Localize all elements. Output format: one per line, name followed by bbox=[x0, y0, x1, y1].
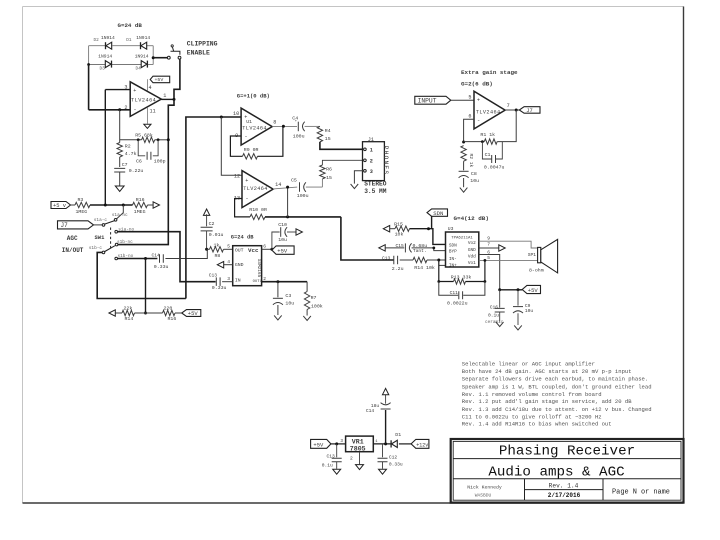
svg-text:Selectable linear or AGC input: Selectable linear or AGC input amplifier bbox=[462, 360, 595, 367]
svg-text:220: 220 bbox=[164, 306, 173, 312]
svg-text:+: + bbox=[245, 178, 248, 184]
capacitor C15 0.68u tantalum bypass bbox=[385, 247, 404, 249]
node IN- junction bbox=[437, 259, 440, 262]
svg-text:6: 6 bbox=[263, 244, 266, 250]
svg-text:CLIPPING: CLIPPING bbox=[187, 40, 218, 47]
svg-text:Extra gain stage: Extra gain stage bbox=[461, 69, 518, 76]
diode D1 (reverse protection) bbox=[390, 440, 392, 447]
svg-text:4: 4 bbox=[227, 259, 230, 265]
capacitor C3 10u bbox=[277, 282, 279, 298]
svg-text:Rev. 1.1 removed volume contro: Rev. 1.1 removed volume control from boa… bbox=[462, 391, 602, 398]
node bias resistors junction bbox=[144, 312, 147, 315]
svg-text:s1b-c: s1b-c bbox=[89, 246, 103, 251]
wire U1A output long vertical down to s1b-nc bbox=[118, 99, 174, 244]
power flag +5V at U2 bbox=[272, 246, 294, 254]
svg-text:Vcc: Vcc bbox=[248, 247, 259, 254]
regulator VR1 7805 body bbox=[346, 436, 374, 452]
ground below VR1 bbox=[356, 465, 364, 470]
svg-text:WA5BDU: WA5BDU bbox=[475, 493, 492, 499]
svg-text:D2: D2 bbox=[94, 38, 100, 43]
wire C7 to ground bbox=[119, 172, 121, 186]
svg-text:AGC: AGC bbox=[67, 235, 78, 242]
node C1 tap bbox=[481, 140, 484, 143]
svg-text:R16: R16 bbox=[168, 316, 177, 322]
switch contact s1a-no bbox=[115, 230, 118, 233]
diode D1 1N914 (top-right, pointing left) bbox=[140, 42, 142, 49]
svg-text:R3: R3 bbox=[78, 197, 84, 203]
svg-text:R1 1k: R1 1k bbox=[480, 132, 495, 138]
svg-text:C10: C10 bbox=[278, 222, 287, 228]
wire U3 Vdd down to +5V node bbox=[479, 255, 500, 290]
connector J1 phone jack body bbox=[363, 142, 385, 181]
svg-text:11: 11 bbox=[150, 108, 156, 114]
capacitor C1 0.0047u parallel bbox=[482, 142, 491, 159]
resistor R13 33k feedback bbox=[439, 260, 454, 282]
IC U3 TPA6211A1 speaker amp body bbox=[446, 232, 479, 267]
node Vo1 feedback tap bbox=[484, 259, 487, 262]
svg-text:5: 5 bbox=[227, 244, 230, 250]
svg-text:R9 0R: R9 0R bbox=[244, 147, 259, 153]
svg-text:IN+: IN+ bbox=[449, 263, 457, 268]
switch pole s1b bbox=[102, 251, 105, 254]
svg-text:+5V: +5V bbox=[188, 310, 199, 317]
capacitor C10 10u decoupling bbox=[272, 232, 280, 249]
resistor R9 0R feedback bbox=[243, 154, 258, 159]
svg-text:3: 3 bbox=[340, 439, 343, 444]
svg-text:-: - bbox=[477, 117, 480, 124]
svg-text:IN-: IN- bbox=[449, 257, 457, 262]
switch contact s1a-nc bbox=[114, 219, 117, 222]
wire SDN flag down to R15 node bbox=[431, 216, 433, 228]
svg-text:1N914: 1N914 bbox=[98, 54, 112, 60]
op-amp U1C TLV2464 (lower follower) bbox=[242, 171, 273, 208]
wire diode-network left leg bbox=[88, 46, 90, 65]
wire IN+ stub bbox=[439, 264, 446, 266]
svg-text:7: 7 bbox=[487, 242, 490, 248]
svg-text:6: 6 bbox=[487, 249, 490, 255]
node R13 left bbox=[437, 280, 440, 283]
node C12/C14 tap bbox=[384, 442, 387, 445]
resistor R15 10k bbox=[390, 228, 395, 230]
svg-text:D1: D1 bbox=[126, 38, 132, 43]
svg-text:C15: C15 bbox=[396, 243, 405, 249]
resistor R4 15 (upper earbud) bbox=[317, 126, 322, 141]
capacitor C8 10u bbox=[459, 170, 469, 172]
svg-text:100k: 100k bbox=[311, 303, 323, 309]
svg-text:+: + bbox=[133, 88, 136, 94]
svg-text:Both have 24 dB gain. AGC star: Both have 24 dB gain. AGC starts at 20 m… bbox=[462, 368, 632, 375]
op-amp U1D TLV2464 (extra gain) bbox=[474, 91, 505, 129]
capacitor C13b 2.2u input coupling bbox=[394, 256, 398, 264]
wire VR1 ground pin bbox=[359, 452, 361, 465]
svg-text:Vo2: Vo2 bbox=[468, 241, 476, 246]
capacitor C5 100u coupling bbox=[299, 182, 301, 192]
wire U1A pin11 ground stub bbox=[147, 108, 149, 124]
svg-text:3.5 MM: 3.5 MM bbox=[364, 188, 387, 195]
node SDN junction bbox=[427, 227, 430, 230]
wire U1D pin6 to feedback node bbox=[464, 119, 474, 142]
diode D4 1N914 (bottom-right, pointing right) bbox=[146, 61, 148, 68]
capacitor C6 100p parallel feedback bbox=[138, 140, 145, 156]
svg-text:1: 1 bbox=[370, 147, 373, 153]
svg-text:Separate followers drive each: Separate followers drive each earbud, to… bbox=[462, 376, 648, 383]
svg-text:1MEG: 1MEG bbox=[134, 209, 146, 215]
off-page arrow left of U2 GND bbox=[217, 262, 223, 268]
wire J7 to s1a pole bbox=[94, 224, 103, 226]
svg-text:10u: 10u bbox=[525, 308, 534, 314]
svg-text:Vdd: Vdd bbox=[468, 254, 476, 259]
wire s1a-no to U2 input coupling bbox=[118, 232, 216, 282]
svg-text:2.2u: 2.2u bbox=[392, 266, 404, 272]
svg-text:s1a-nc: s1a-nc bbox=[112, 213, 128, 218]
wire jack pin3 to ground bbox=[354, 171, 363, 184]
off-page arrow left of R15 bbox=[383, 226, 389, 232]
switch pole s1a bbox=[102, 224, 105, 227]
off-page arrow above C2 bbox=[203, 209, 209, 215]
svg-text:1: 1 bbox=[163, 93, 166, 99]
power flag +5V regulator output bbox=[311, 439, 331, 448]
ground below C16 bbox=[496, 322, 504, 327]
wire R16 to off-page arrow bbox=[148, 204, 153, 206]
off-page arrow left of C15 bbox=[379, 245, 385, 251]
svg-text:1N914: 1N914 bbox=[136, 35, 150, 41]
svg-text:TPA6211A1: TPA6211A1 bbox=[451, 237, 473, 241]
svg-text:14: 14 bbox=[275, 182, 281, 188]
svg-text:Rev. 1.3 add C14/18u due to at: Rev. 1.3 add C14/18u due to attent. on +… bbox=[462, 406, 652, 413]
svg-text:Speaker amp is 1 W, BTL couple: Speaker amp is 1 W, BTL coupled, don't g… bbox=[462, 383, 652, 390]
svg-text:+5V: +5V bbox=[313, 441, 324, 448]
svg-text:1N914: 1N914 bbox=[135, 54, 149, 60]
svg-text:Nick Kennedy: Nick Kennedy bbox=[467, 484, 502, 490]
node BYP bbox=[432, 247, 435, 250]
off-page arrow right after R16 bbox=[153, 202, 159, 208]
svg-text:8: 8 bbox=[273, 120, 276, 126]
wire C13 to R14b bbox=[400, 259, 413, 261]
wire U1C pin13 feedback loop bbox=[235, 199, 250, 217]
svg-text:C3: C3 bbox=[285, 293, 291, 299]
wire C2 to R8 node bbox=[206, 231, 208, 249]
svg-text:SW1: SW1 bbox=[95, 234, 106, 241]
wire R4 to jack pin1 bbox=[320, 142, 363, 149]
svg-text:C14: C14 bbox=[366, 408, 375, 414]
svg-text:+5 v: +5 v bbox=[53, 203, 67, 209]
svg-text:3: 3 bbox=[124, 85, 127, 91]
wire R15 to SDN pin bbox=[410, 229, 446, 245]
power flag +5V speaker amp bbox=[522, 285, 540, 293]
capacitor C14b 18u on +12V bus bbox=[385, 410, 387, 444]
svg-text:G=4(12 dB): G=4(12 dB) bbox=[454, 215, 489, 222]
svg-text:+12v: +12v bbox=[416, 442, 428, 448]
svg-text:15: 15 bbox=[325, 136, 331, 142]
svg-text:10u: 10u bbox=[285, 300, 294, 306]
svg-text:C8: C8 bbox=[471, 171, 477, 177]
resistor R8 1k bbox=[210, 247, 224, 252]
wire INPUT to U1D pin5 bbox=[451, 99, 474, 101]
capacitor C9 10u bbox=[517, 290, 519, 306]
net flag J7 (input to switch) bbox=[58, 221, 94, 229]
svg-text:10k: 10k bbox=[395, 232, 404, 238]
wire R1 to output vertical bbox=[497, 110, 516, 142]
capacitor C7 0.22u bbox=[114, 168, 125, 172]
wire U1D output pin7 bbox=[505, 109, 519, 111]
svg-text:Rev. 1.2 put add'l gain stage: Rev. 1.2 put add'l gain stage in service… bbox=[462, 398, 632, 405]
wire U3 GND to arrow bbox=[479, 247, 499, 249]
svg-text:9: 9 bbox=[487, 236, 490, 242]
switch contact s1b-nc bbox=[115, 243, 118, 246]
svg-text:IN: IN bbox=[235, 277, 241, 283]
jack pin 3 bbox=[364, 170, 367, 173]
node U2 Vcc +5V bbox=[270, 248, 273, 251]
wire R2 to C8 bbox=[463, 161, 465, 170]
wire pin3 down to AGC divider node bbox=[104, 90, 106, 206]
wire feedback node to R1 bbox=[464, 141, 485, 143]
wire diode-network bottom rail bbox=[89, 64, 105, 66]
switch S2 clipping enable contact right and actuator bbox=[178, 56, 181, 59]
ground below U1A pin11 bbox=[144, 124, 151, 128]
resistor R2b 1k to ground bbox=[461, 146, 466, 162]
svg-text:D1: D1 bbox=[395, 432, 401, 438]
svg-text:IN/OUT: IN/OUT bbox=[62, 247, 84, 254]
wire bias tap down bbox=[145, 259, 147, 314]
wire U1B pin9 feedback loop bbox=[230, 136, 242, 156]
wire C15 to BYP pin bbox=[412, 248, 446, 251]
svg-text:C5: C5 bbox=[291, 178, 297, 184]
svg-text:1MEG: 1MEG bbox=[76, 209, 88, 215]
svg-text:R14 10k: R14 10k bbox=[414, 265, 435, 271]
off-page arrow up on +12V bus bbox=[382, 388, 388, 394]
resistor R3 1MEG bbox=[75, 202, 90, 207]
svg-text:BYP: BYP bbox=[449, 250, 457, 255]
svg-text:ENABLE: ENABLE bbox=[187, 50, 210, 57]
wire U1C output down to feedback bbox=[287, 187, 289, 217]
svg-text:2: 2 bbox=[350, 455, 353, 461]
svg-text:C13: C13 bbox=[382, 255, 391, 261]
node U2 output / C3 bbox=[276, 280, 279, 283]
node AGC line / U1A pin3 bbox=[104, 204, 107, 207]
svg-text:7805: 7805 bbox=[350, 446, 366, 453]
svg-text:C14: C14 bbox=[152, 253, 161, 259]
wire VR1 input from D1 bbox=[373, 443, 391, 445]
node C2/R8/C14 bbox=[205, 248, 208, 251]
svg-text:C1: C1 bbox=[485, 152, 491, 158]
svg-text:OUT1: OUT1 bbox=[253, 280, 263, 284]
resistor R5 68k feedback bbox=[120, 139, 142, 141]
node R5 right bbox=[157, 138, 160, 141]
wire U1A pin3 non-inverting input bbox=[105, 89, 130, 91]
svg-text:0.0022u: 0.0022u bbox=[447, 301, 468, 307]
svg-text:SDN: SDN bbox=[433, 210, 443, 217]
svg-text:R2 1k: R2 1k bbox=[468, 154, 474, 168]
wire diode-network right leg bbox=[152, 46, 154, 65]
wire s1b-no line bbox=[118, 258, 158, 260]
power flag +5V bias bbox=[182, 310, 201, 317]
wire clipping-enable switch to op-amp output bbox=[174, 59, 180, 99]
diode D2 1N914 (top-left, pointing left) bbox=[105, 42, 107, 49]
svg-text:ceramic: ceramic bbox=[485, 320, 504, 325]
node pin2 / R2 junction bbox=[118, 108, 121, 111]
svg-text:100u: 100u bbox=[293, 133, 305, 139]
svg-text:C7: C7 bbox=[122, 162, 128, 168]
svg-text:R5 68k: R5 68k bbox=[135, 132, 153, 138]
wire U3 Vo1 to speaker bottom bbox=[479, 259, 538, 261]
wire U2 Vcc pin to +5V bbox=[262, 248, 272, 250]
resistor R14b 10k bbox=[413, 257, 427, 262]
resistor R1 1k feedback bbox=[484, 139, 497, 144]
svg-text:U1: U1 bbox=[246, 119, 252, 125]
wire diode network down to inverting input bbox=[88, 65, 90, 110]
svg-text:R13 33k: R13 33k bbox=[451, 275, 472, 281]
power flag +12v bbox=[411, 439, 429, 448]
svg-text:TLV2464: TLV2464 bbox=[243, 186, 268, 192]
wire D1 to +12V flag bbox=[399, 443, 411, 445]
jack pin 1 bbox=[364, 148, 367, 151]
svg-text:4: 4 bbox=[149, 85, 152, 91]
svg-text:G=+1(0 dB): G=+1(0 dB) bbox=[237, 92, 270, 99]
node U1C feedback/output junction bbox=[286, 215, 289, 218]
node U1A output junction bbox=[173, 98, 176, 101]
wire +5v to R3 bbox=[71, 204, 76, 206]
svg-text:D3: D3 bbox=[100, 66, 106, 71]
svg-text:s1b-nc: s1b-nc bbox=[117, 240, 133, 245]
switch mechanical link (dashed) bbox=[110, 228, 112, 251]
svg-text:+: + bbox=[477, 97, 480, 103]
svg-text:C12: C12 bbox=[389, 454, 398, 460]
svg-text:PHONES: PHONES bbox=[382, 146, 389, 176]
capacitor C17 0.1u output bbox=[336, 444, 338, 457]
wire AGC line bbox=[90, 204, 133, 206]
svg-text:SSM2165: SSM2165 bbox=[256, 259, 261, 278]
wire R6 to jack pin2 bbox=[322, 160, 362, 165]
node R5 left bbox=[137, 138, 140, 141]
svg-text:0.22u: 0.22u bbox=[129, 168, 144, 174]
capacitor C11 0.0022u parallel bbox=[439, 282, 458, 296]
wire U2 pin3 IN coupling cap C13 bbox=[216, 277, 220, 286]
svg-text:J7: J7 bbox=[61, 222, 69, 229]
wire diode-network top rail bbox=[89, 45, 106, 47]
capacitor C12 0.33u input bbox=[382, 444, 384, 457]
svg-text:C2: C2 bbox=[209, 221, 215, 227]
svg-text:5: 5 bbox=[468, 94, 471, 100]
svg-text:C6: C6 bbox=[136, 158, 142, 164]
svg-text:SDN: SDN bbox=[449, 243, 457, 248]
svg-text:C13: C13 bbox=[209, 273, 218, 279]
wire U1A pin4 +5V stub bbox=[146, 79, 148, 90]
svg-text:G=24 dB: G=24 dB bbox=[118, 22, 143, 29]
title block outer border bbox=[451, 439, 684, 503]
svg-text:TLV2464: TLV2464 bbox=[476, 109, 501, 115]
svg-text:8-ohm: 8-ohm bbox=[529, 267, 544, 273]
svg-text:0.1u: 0.1u bbox=[488, 312, 499, 318]
svg-text:J1: J1 bbox=[368, 137, 374, 143]
wire +5V node to flag bbox=[500, 289, 523, 291]
node bias tap on s1b-no line bbox=[144, 257, 147, 260]
ground below C7 bbox=[115, 186, 124, 191]
svg-text:15: 15 bbox=[326, 175, 332, 181]
svg-text:-: - bbox=[245, 195, 248, 202]
wire C14 to R8 node bbox=[165, 249, 207, 258]
svg-text:D4: D4 bbox=[136, 66, 142, 71]
ground below C12 bbox=[379, 469, 387, 474]
resistor R16 1MEG bbox=[133, 202, 148, 207]
svg-text:R16: R16 bbox=[136, 197, 145, 203]
svg-text:R6: R6 bbox=[326, 166, 332, 172]
svg-text:+5V: +5V bbox=[155, 77, 164, 83]
resistor R2 4.7k bbox=[117, 143, 122, 158]
svg-text:2: 2 bbox=[124, 105, 127, 111]
title block row dividers bbox=[453, 459, 681, 501]
wire pin2 node down to R2 bbox=[119, 110, 121, 143]
diode D3 1N914 (bottom-left, pointing right) bbox=[111, 61, 113, 68]
ground below C8 bbox=[460, 188, 468, 193]
svg-text:C16: C16 bbox=[490, 304, 499, 310]
svg-text:TLV2464: TLV2464 bbox=[131, 98, 156, 104]
capacitor C16 0.1u ceramic bbox=[499, 290, 501, 308]
svg-text:22k: 22k bbox=[124, 306, 133, 312]
svg-text:Tant.: Tant. bbox=[413, 248, 427, 254]
svg-text:0.33u: 0.33u bbox=[212, 285, 227, 291]
resistor R14 22k bias bbox=[115, 312, 122, 314]
svg-text:0.1u: 0.1u bbox=[322, 462, 333, 468]
switch contact s1b-no bbox=[115, 257, 118, 260]
op-amp U1B TLV2464 (upper follower) bbox=[241, 108, 272, 145]
power flag +5 v (AGC bias) bbox=[51, 202, 71, 209]
wire s1a-nc tap down bbox=[116, 205, 123, 219]
svg-text:R7: R7 bbox=[311, 295, 317, 301]
svg-text:2: 2 bbox=[370, 158, 373, 164]
svg-text:G=2(6 dB): G=2(6 dB) bbox=[461, 81, 493, 88]
wire s1b pole to follower feed bbox=[97, 252, 186, 298]
svg-text:0.01u: 0.01u bbox=[209, 232, 224, 238]
wire U1C output pin14 bbox=[273, 187, 297, 189]
node R5/C6 on output vertical bbox=[167, 138, 170, 141]
off-page arrow right of C10 bbox=[296, 229, 302, 235]
node AGC line / s1a-nc tap bbox=[122, 204, 125, 207]
svg-text:100p: 100p bbox=[154, 158, 166, 164]
node C17 tap bbox=[335, 442, 338, 445]
wire U1A pin2 inverting input bbox=[89, 109, 131, 111]
switch S2 clipping enable contact left bbox=[152, 56, 155, 59]
svg-text:s1a-c: s1a-c bbox=[94, 218, 108, 223]
svg-text:R2: R2 bbox=[125, 143, 131, 149]
svg-text:Vo1: Vo1 bbox=[468, 261, 476, 266]
speaker SP1 body bbox=[538, 247, 541, 262]
svg-text:10: 10 bbox=[233, 111, 239, 117]
svg-text:1N914: 1N914 bbox=[101, 35, 115, 41]
ground below C17 bbox=[333, 469, 341, 474]
wire speaker tap down to C13 line bbox=[341, 217, 394, 260]
svg-text:4.7k: 4.7k bbox=[125, 151, 137, 157]
wire U1A output pin1 bbox=[161, 98, 174, 100]
svg-text:G=24 dB: G=24 dB bbox=[231, 234, 254, 240]
svg-text:5: 5 bbox=[487, 255, 490, 261]
svg-text:-: - bbox=[244, 132, 247, 139]
svg-text:R10 0R: R10 0R bbox=[249, 207, 267, 213]
op-amp U1A body bbox=[130, 82, 161, 117]
ground below jack pin3 bbox=[351, 184, 359, 189]
off-page arrow left of R14 bbox=[109, 310, 115, 316]
svg-text:R8: R8 bbox=[215, 253, 221, 259]
svg-text:SP1: SP1 bbox=[528, 252, 537, 258]
svg-text:12: 12 bbox=[234, 173, 240, 179]
switch arm s1b bbox=[105, 246, 115, 252]
node C9 tap bbox=[517, 288, 520, 291]
wire U2 pin4 GND to off-page arrow bbox=[224, 264, 233, 266]
wire R14 to IN- pin bbox=[427, 259, 446, 261]
svg-text:Rev. 1.4 add R14R16 to bias wh: Rev. 1.4 add R14R16 to bias when switche… bbox=[462, 420, 612, 427]
svg-text:C13: C13 bbox=[327, 454, 336, 460]
wire U3 Vo2 to speaker top bbox=[479, 241, 538, 248]
wire R9 to output bbox=[258, 126, 283, 156]
